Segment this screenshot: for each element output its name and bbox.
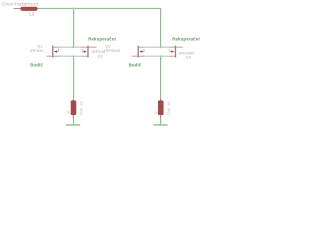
svg-text:IRF540: IRF540 <box>30 48 44 53</box>
svg-text:0R22: 0R22 <box>79 108 83 116</box>
svg-text:Q4: Q4 <box>186 55 192 60</box>
svg-text:Budič: Budič <box>129 62 142 67</box>
svg-text:R6: R6 <box>167 102 171 106</box>
svg-text:Q3: Q3 <box>97 54 103 59</box>
svg-text:5W: 5W <box>67 110 72 114</box>
svg-text:Rekuperační: Rekuperační <box>88 36 116 41</box>
svg-text:0R22: 0R22 <box>167 108 171 116</box>
svg-text:Externí indukčnost: Externí indukčnost <box>2 2 39 7</box>
svg-text:Budič: Budič <box>30 62 43 67</box>
svg-text:5W: 5W <box>154 110 159 114</box>
svg-text:L3: L3 <box>29 12 34 17</box>
svg-text:Rekuperační: Rekuperační <box>172 36 200 41</box>
svg-text:IRF9540: IRF9540 <box>104 48 121 53</box>
svg-text:R5: R5 <box>79 102 83 106</box>
